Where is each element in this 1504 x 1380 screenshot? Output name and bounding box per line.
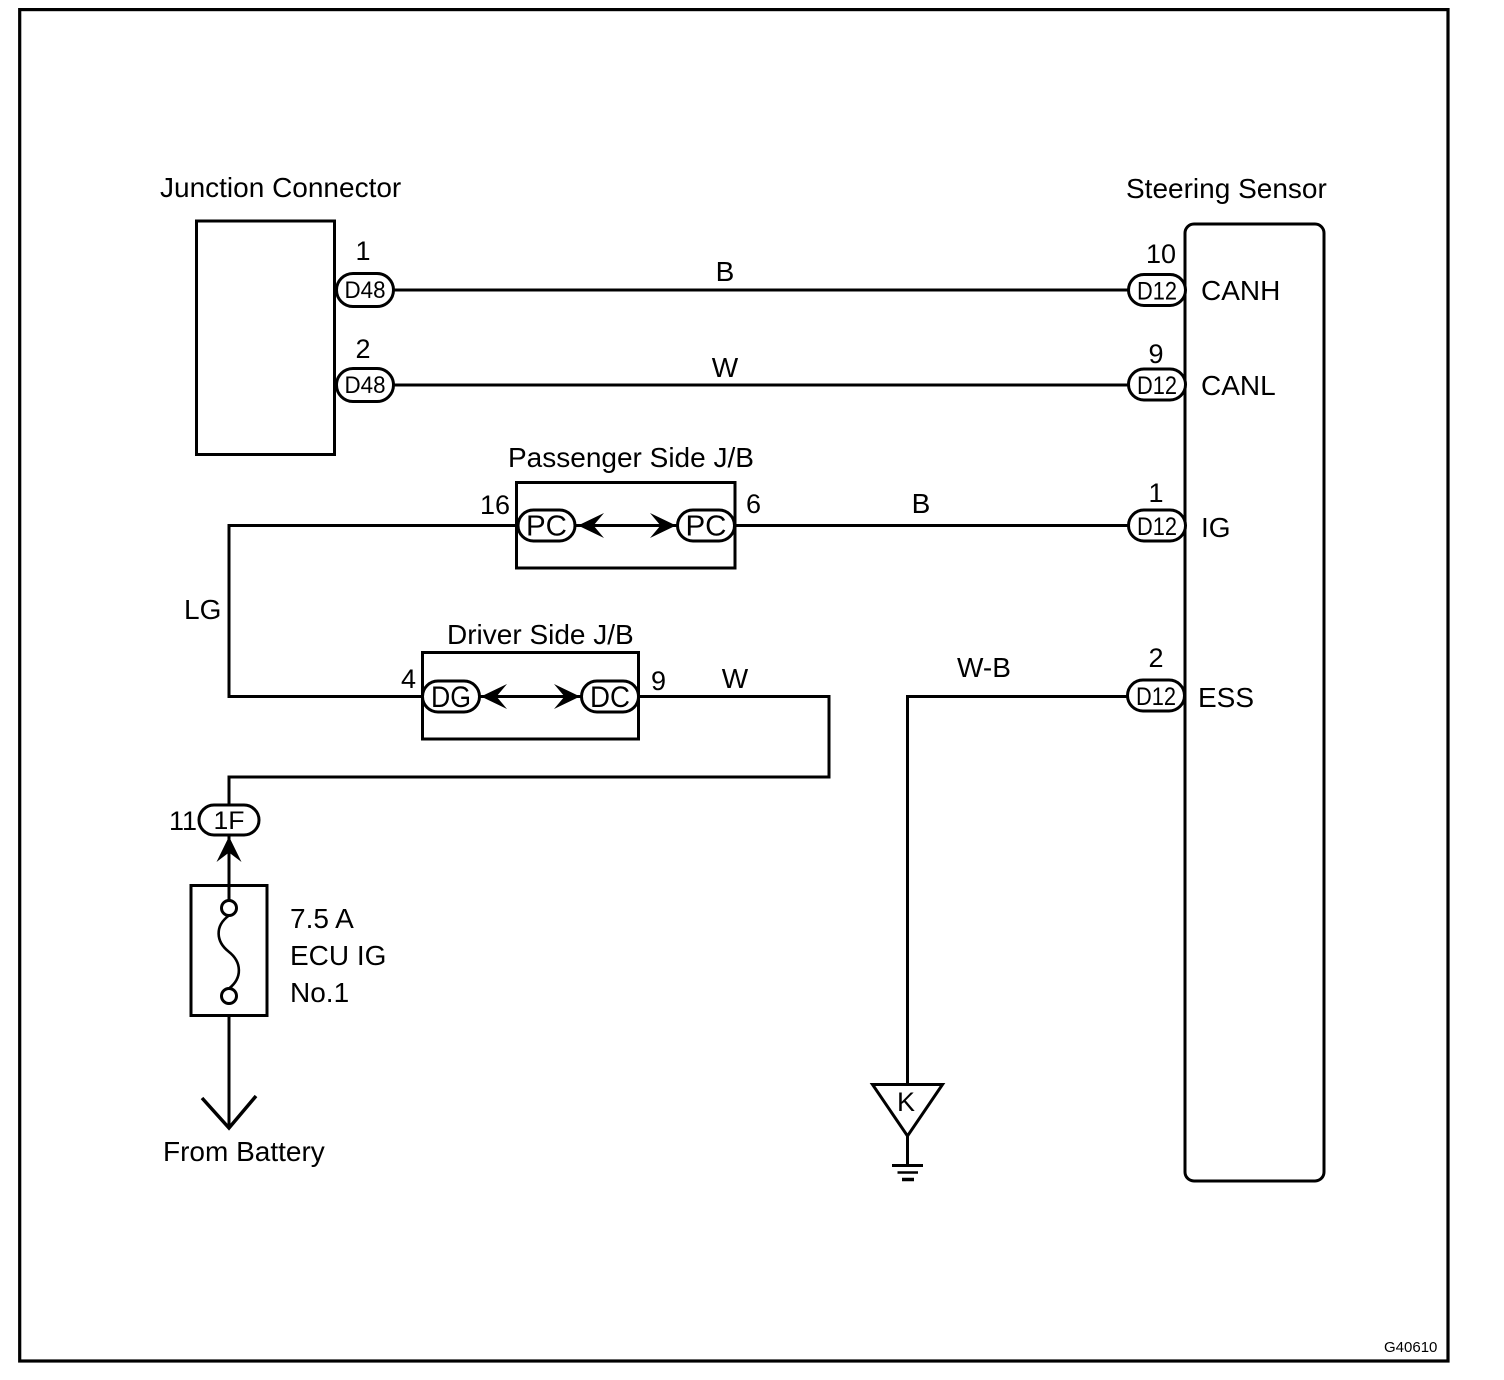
svg-text:ESS: ESS xyxy=(1198,682,1254,713)
svg-text:1F: 1F xyxy=(214,807,245,835)
svg-text:Junction Connector: Junction Connector xyxy=(160,172,401,203)
svg-text:IG: IG xyxy=(1201,512,1231,543)
svg-text:W: W xyxy=(712,352,739,383)
svg-text:K: K xyxy=(897,1087,915,1117)
svg-text:DG: DG xyxy=(431,681,471,714)
svg-text:From Battery: From Battery xyxy=(163,1136,325,1167)
arrow left driver xyxy=(481,684,507,709)
svg-text:1: 1 xyxy=(355,236,370,266)
arrow right driver xyxy=(554,684,580,709)
svg-text:ECU IG: ECU IG xyxy=(290,940,386,971)
arrow up into 1F xyxy=(217,837,242,863)
driver side J/B body xyxy=(423,653,639,740)
svg-text:B: B xyxy=(912,488,931,519)
svg-text:PC: PC xyxy=(526,511,567,543)
svg-text:D12: D12 xyxy=(1137,372,1177,400)
connector PC right xyxy=(678,510,735,543)
wire W (CANL) xyxy=(394,384,1129,387)
svg-text:B: B xyxy=(716,256,735,287)
connector DG xyxy=(423,681,480,714)
ground bars xyxy=(892,1164,923,1167)
wire W segment: driver J/B pin9 down and left to fuse 1F xyxy=(229,697,829,807)
connector DC xyxy=(582,681,639,714)
svg-text:DC: DC xyxy=(590,681,630,714)
ground K triangle xyxy=(873,1085,943,1137)
svg-text:No.1: No.1 xyxy=(290,977,349,1008)
connector D12 pin9 xyxy=(1129,369,1186,400)
wire LG segment: passenger J/B pin16 to left vertical xyxy=(229,526,518,697)
arrow right passenger xyxy=(650,513,676,538)
steering sensor body xyxy=(1185,224,1324,1181)
svg-text:2: 2 xyxy=(355,334,370,364)
connector D12 pin2 xyxy=(1128,680,1185,711)
svg-text:Passenger Side J/B: Passenger Side J/B xyxy=(508,442,754,473)
wire between PC ovals xyxy=(575,524,678,527)
svg-text:D12: D12 xyxy=(1137,513,1177,541)
svg-text:PC: PC xyxy=(686,511,727,543)
fuse F1 element xyxy=(219,901,239,1004)
ground stem xyxy=(906,1136,909,1164)
svg-text:7.5 A: 7.5 A xyxy=(290,903,354,934)
wire from arrow to fuse box xyxy=(228,835,231,900)
svg-text:11: 11 xyxy=(169,806,197,836)
connector D48 pin2 xyxy=(337,369,394,402)
svg-text:2: 2 xyxy=(1148,643,1163,673)
arrow left passenger xyxy=(578,513,604,538)
connector D12 pin10 xyxy=(1129,275,1186,306)
svg-text:D12: D12 xyxy=(1136,683,1176,711)
connector 1F xyxy=(199,805,259,835)
wire W-B: ground branch to sensor ESS xyxy=(908,697,1128,1085)
svg-text:CANL: CANL xyxy=(1201,370,1276,401)
svg-text:D48: D48 xyxy=(345,372,386,399)
svg-text:16: 16 xyxy=(480,490,510,520)
connector PC left xyxy=(518,510,575,543)
svg-text:G40610: G40610 xyxy=(1384,1339,1437,1356)
wire B (CANH) xyxy=(394,289,1129,292)
junction connector J1 body xyxy=(197,221,335,455)
svg-text:6: 6 xyxy=(746,489,761,519)
passenger side J/B body xyxy=(517,483,736,569)
fuse F1 body xyxy=(191,886,267,1016)
connector D12 pin1 xyxy=(1129,510,1186,541)
svg-text:W-B: W-B xyxy=(957,652,1011,683)
svg-text:W: W xyxy=(722,663,749,694)
svg-text:LG: LG xyxy=(184,594,221,625)
svg-text:Driver Side J/B: Driver Side J/B xyxy=(447,619,634,650)
arrowhead to battery xyxy=(202,1096,256,1128)
svg-text:Steering Sensor: Steering Sensor xyxy=(1126,173,1327,204)
wire to battery xyxy=(228,1016,231,1126)
connector D48 pin1 xyxy=(337,274,394,307)
svg-text:D12: D12 xyxy=(1137,278,1177,306)
svg-text:10: 10 xyxy=(1146,239,1176,269)
svg-text:D48: D48 xyxy=(345,277,386,304)
svg-text:1: 1 xyxy=(1148,478,1163,508)
svg-text:CANH: CANH xyxy=(1201,275,1280,306)
wire between DG and DC ovals xyxy=(479,695,582,698)
svg-text:4: 4 xyxy=(401,664,416,694)
svg-text:9: 9 xyxy=(1148,339,1163,369)
svg-text:9: 9 xyxy=(651,666,666,696)
wire B segment: passenger J/B pin6 to sensor IG xyxy=(734,524,1129,527)
